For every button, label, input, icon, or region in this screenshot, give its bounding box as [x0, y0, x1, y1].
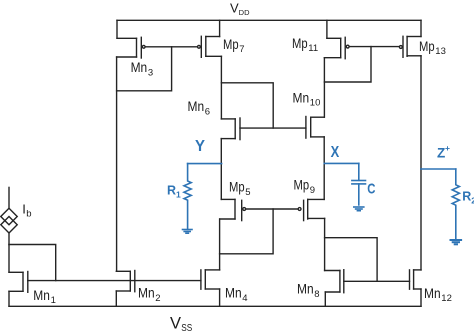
wire Mp11 source to VDD: [326, 20, 328, 38]
transistor Mp11: [324, 37, 349, 58]
resistor R1: [184, 164, 191, 230]
wire Mn6 diode loop (gate to Mp7 drain): [221, 83, 273, 128]
node X wire: [324, 162, 359, 164]
wire Mn12 source to VSS: [420, 289, 422, 306]
transistor Mp9: [298, 199, 324, 220]
svg-text:Mn10: Mn10: [293, 89, 321, 108]
wire Mp7 drain column to Mn6: [220, 56, 222, 119]
node Z wire: [421, 168, 456, 170]
svg-text:Y: Y: [195, 138, 205, 155]
wire gate tap Mp5/Mp9 to Mn4 drain: [220, 209, 274, 254]
svg-text:Mn6: Mn6: [188, 98, 211, 117]
capacitor C: [352, 163, 366, 205]
svg-text:C: C: [367, 181, 375, 198]
wire Mp9 source to Mn8 drain: [324, 218, 326, 270]
svg-text:Mn2: Mn2: [138, 285, 161, 304]
transistor Mn2: [116, 271, 135, 292]
current source Ib: [1, 187, 17, 244]
wire Mn3 diode connection (gate tap to drain): [117, 47, 172, 91]
wire Mn4 source to VSS: [219, 289, 221, 306]
wire gate bus Mp11-Mp13: [349, 46, 399, 48]
wire Mn10 source to Mp9 drain (node X column): [323, 137, 325, 200]
wire gate bus Mn6-Mn10: [240, 127, 306, 129]
svg-text:Mn1: Mn1: [33, 287, 56, 306]
svg-text:Mp7: Mp7: [223, 36, 245, 55]
wire Mn6 source to Mp5 drain (node Y column): [220, 139, 222, 200]
svg-text:Mn8: Mn8: [297, 281, 320, 300]
wire Ib node to gate bus: [9, 245, 56, 281]
wire Mn1 drain to Ib: [8, 245, 10, 273]
node Y wire: [188, 163, 222, 165]
svg-text:R2: R2: [462, 189, 474, 205]
svg-text:Mn4: Mn4: [225, 285, 248, 304]
svg-text:Mp5: Mp5: [229, 179, 251, 198]
svg-text:X: X: [331, 144, 340, 161]
wire Mn1 source to VSS: [8, 291, 10, 306]
wire gate bus Mn8-Mn12: [344, 280, 410, 282]
transistor Mn1: [9, 272, 28, 293]
transistor Mn12: [410, 270, 422, 289]
ground R2: [451, 240, 462, 244]
transistor Mp13: [399, 36, 421, 57]
svg-text:VDD: VDD: [230, 0, 250, 16]
wire Mp11 diode connection (gate tap to drain): [324, 47, 371, 82]
wire Mp5 source to Mn4 drain: [219, 219, 221, 270]
wire gate bus Mn3-Mp7: [145, 46, 197, 48]
ground C: [354, 207, 364, 211]
wire Mn3 source to VDD: [116, 20, 118, 38]
wire Mn8 source to VSS: [324, 292, 326, 306]
wire Mp13 drain column (node Z) to Mn12: [420, 56, 422, 270]
ground R1: [183, 230, 193, 234]
transistor Mp5: [220, 199, 246, 220]
wire Mn3 drain column to Mn2 drain: [116, 57, 118, 271]
transistor Mp7: [198, 36, 222, 57]
transistor Mn8: [325, 270, 344, 293]
resistor R2: [452, 169, 459, 239]
svg-text:Mn3: Mn3: [131, 59, 154, 78]
svg-text:Ib: Ib: [22, 201, 31, 219]
svg-text:Mp11: Mp11: [292, 35, 318, 54]
svg-text:R1: R1: [167, 184, 181, 200]
wire Mp11 drain column to Mn10: [323, 58, 325, 117]
wire gate bus Mp5-Mp9: [246, 208, 299, 210]
svg-text:Mn12: Mn12: [424, 285, 452, 304]
wire gate bus Mn1-Mn2-Mn4: [28, 280, 201, 282]
wire Mn2 source to VSS: [115, 291, 117, 306]
svg-text:VSS: VSS: [170, 315, 192, 332]
wire Mp7 source to VDD: [219, 20, 221, 36]
power rail VDD: [117, 19, 421, 21]
svg-text:Mp9: Mp9: [294, 177, 316, 196]
svg-text:Mp13: Mp13: [419, 38, 446, 57]
wire gate tap Mn8/Mn12 to Mp9 source: [325, 238, 378, 282]
transistor Mn4: [201, 270, 220, 289]
wire Mp13 source to VDD: [420, 20, 422, 36]
transistor Mn10: [306, 117, 324, 139]
transistor Mn3: [117, 37, 146, 58]
power rail VSS: [9, 305, 421, 307]
svg-text:Z+: Z+: [437, 143, 450, 161]
transistor Mn6: [221, 118, 240, 140]
